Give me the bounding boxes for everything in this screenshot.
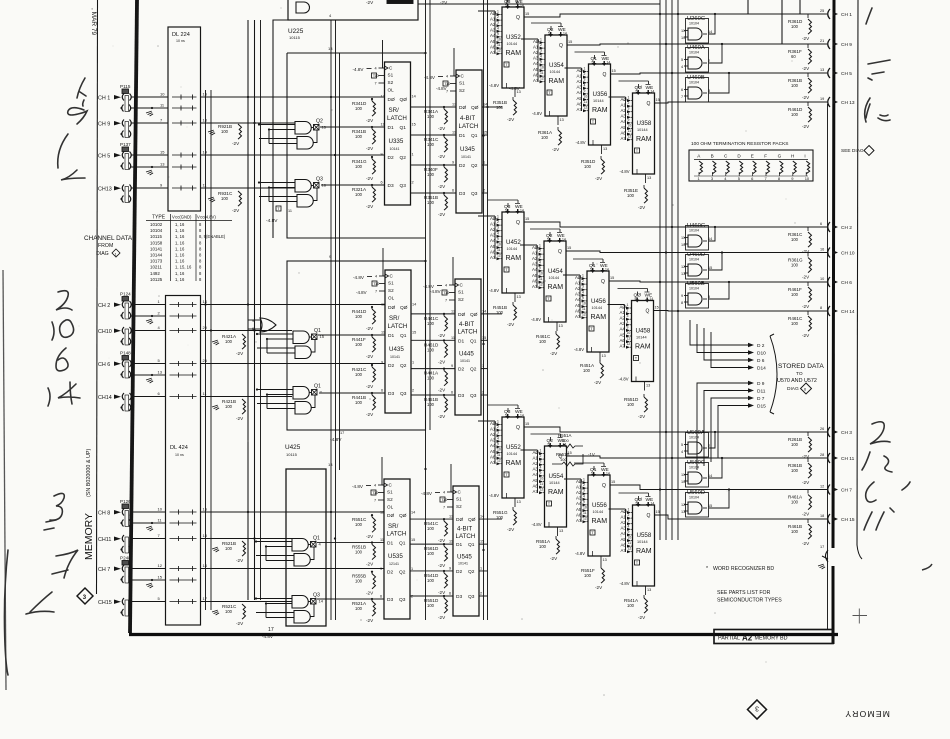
svg-text:D1: D1	[388, 125, 394, 131]
T pullup group1	[266, 206, 292, 224]
svg-text:U558: U558	[637, 532, 652, 539]
svg-text:1, 15, 16: 1, 15, 16	[175, 265, 192, 270]
svg-text:15: 15	[708, 266, 712, 270]
svg-text:MEMORY: MEMORY	[83, 513, 95, 560]
cut-off component top bar	[387, 0, 413, 4]
svg-text:9: 9	[497, 237, 499, 241]
4-bit latch U445	[423, 257, 486, 415]
svg-text:S1: S1	[387, 490, 393, 495]
svg-text:100: 100	[541, 135, 549, 140]
svg-text:-4.8V: -4.8V	[532, 111, 542, 116]
svg-text:P137: P137	[120, 142, 131, 147]
bus line C	[260, 20, 262, 600]
svg-text:RAM: RAM	[636, 548, 652, 555]
RAM U354	[521, 23, 572, 125]
svg-text:2: 2	[497, 15, 499, 19]
svg-text:3: 3	[539, 255, 541, 259]
svg-text:CH 6: CH 6	[841, 280, 852, 286]
svg-text:1: 1	[627, 303, 629, 307]
svg-text:12: 12	[681, 265, 685, 269]
svg-text:15: 15	[708, 504, 712, 508]
svg-text:H: H	[791, 154, 794, 159]
svg-text:5: 5	[505, 209, 507, 213]
svg-text:4: 4	[374, 484, 376, 488]
bus line I	[483, 0, 485, 620]
stored data bracket	[770, 334, 777, 414]
svg-text:5: 5	[592, 61, 594, 65]
svg-text:CH 3: CH 3	[841, 430, 852, 436]
bus line L	[665, 0, 667, 540]
svg-text:100: 100	[791, 468, 799, 473]
svg-text:100: 100	[427, 321, 435, 326]
svg-text:-4.8V: -4.8V	[353, 67, 365, 72]
RAM U458	[608, 289, 659, 391]
svg-text:CH 10: CH 10	[841, 251, 855, 257]
wires CH8 group to DL424	[130, 507, 166, 602]
svg-text:2: 2	[482, 391, 484, 395]
wires DL424 outputs group2	[201, 299, 386, 397]
svg-text:11: 11	[628, 541, 632, 545]
svg-text:12: 12	[583, 517, 587, 521]
svg-text:P124: P124	[120, 292, 131, 297]
svg-text:-2V: -2V	[438, 359, 446, 364]
svg-text:3: 3	[497, 226, 499, 230]
svg-text:-1V: -1V	[588, 452, 595, 457]
svg-text:RAM: RAM	[506, 50, 522, 57]
svg-text:Q3: Q3	[470, 393, 477, 399]
svg-text:9: 9	[627, 325, 629, 329]
resistors R551C R551B R555B R521A	[352, 514, 376, 623]
svg-text:Q: Q	[516, 425, 520, 431]
svg-text:-4.8V: -4.8V	[509, 86, 520, 91]
svg-text:-2V: -2V	[438, 126, 446, 131]
gate pair Q1 group2	[256, 328, 325, 359]
svg-text:D2: D2	[388, 155, 394, 161]
svg-text:11: 11	[381, 123, 385, 127]
bus line J	[487, 0, 489, 620]
wires CH1 group to DL224	[130, 92, 168, 189]
svg-text:-2V: -2V	[802, 66, 810, 71]
svg-text:12: 12	[582, 313, 586, 317]
svg-text:12: 12	[497, 49, 501, 53]
svg-text:Q1: Q1	[468, 542, 475, 548]
svg-text:-2V: -2V	[802, 480, 810, 485]
svg-text:-2V: -2V	[802, 333, 810, 338]
RAM U556	[564, 463, 615, 565]
svg-text:AØ: AØ	[621, 509, 628, 514]
delay line DL224	[168, 27, 201, 211]
svg-text:11: 11	[540, 482, 544, 486]
svg-text:Q2: Q2	[400, 155, 407, 161]
svg-text:D1: D1	[458, 338, 464, 344]
svg-text:15: 15	[568, 40, 572, 44]
svg-text:100: 100	[355, 192, 363, 197]
bus line N	[677, 0, 679, 540]
svg-text:11: 11	[381, 331, 385, 335]
svg-text:10144: 10144	[636, 336, 647, 340]
svg-text:1: 1	[497, 215, 499, 219]
svg-text:10: 10	[497, 38, 501, 42]
svg-text:-2V: -2V	[802, 304, 810, 309]
svg-text:Q1: Q1	[471, 133, 478, 139]
svg-text:-4.8V: -4.8V	[352, 484, 364, 489]
svg-text:14: 14	[708, 474, 712, 478]
wires CH2 group to DL424	[130, 299, 166, 397]
bus line M	[671, 0, 673, 540]
svg-text:Q2: Q2	[471, 163, 478, 169]
svg-text:LATCH: LATCH	[387, 115, 407, 122]
svg-text:10144: 10144	[507, 452, 518, 456]
svg-text:(SN B020000 & UP): (SN B020000 & UP)	[86, 449, 92, 497]
svg-text:10104: 10104	[689, 466, 699, 470]
svg-text:S1: S1	[459, 81, 465, 86]
left scan edge line	[3, 270, 6, 690]
connector CH14 input	[98, 393, 131, 411]
svg-text:15: 15	[412, 331, 416, 335]
svg-text:5: 5	[590, 268, 592, 272]
svg-text:AØ: AØ	[490, 11, 497, 16]
svg-text:U456: U456	[591, 298, 606, 305]
RAM U554	[521, 434, 572, 536]
svg-text:14: 14	[412, 303, 416, 307]
svg-text:D2: D2	[459, 163, 465, 169]
handwritten far-left stroke	[4, 550, 8, 675]
connector CH15 input	[98, 598, 131, 616]
svg-text:AØ: AØ	[490, 216, 497, 221]
svg-text:LATCH: LATCH	[387, 531, 407, 538]
svg-text:-2V: -2V	[366, 146, 374, 151]
svg-text:3: 3	[584, 78, 586, 82]
svg-text:10104: 10104	[689, 229, 699, 233]
svg-text:100: 100	[791, 529, 799, 534]
svg-text:DIAG: DIAG	[787, 386, 799, 392]
svg-text:7: 7	[374, 499, 376, 503]
svg-text:G: G	[778, 154, 782, 159]
RAM U558	[609, 493, 660, 595]
svg-text:B: B	[711, 154, 714, 159]
svg-text:1: 1	[497, 420, 499, 424]
wires DL224 outputs	[201, 92, 385, 189]
svg-text:15: 15	[525, 422, 529, 426]
handwritten 1 lower	[26, 592, 54, 614]
svg-text:D15: D15	[757, 404, 766, 410]
termination R361B output CH 11	[788, 453, 855, 485]
svg-text:100: 100	[791, 24, 799, 29]
svg-text:1, 16: 1, 16	[175, 222, 185, 227]
svg-text:P115: P115	[120, 84, 131, 89]
svg-text:CH 1: CH 1	[841, 12, 852, 18]
svg-text:D10: D10	[757, 351, 766, 357]
svg-text:TYPE: TYPE	[152, 215, 166, 221]
100 ohm termination resistor packs	[689, 141, 813, 181]
svg-text:P126: P126	[120, 499, 131, 504]
svg-text:15: 15	[656, 510, 660, 514]
svg-text:100: 100	[225, 339, 233, 344]
svg-text:S2: S2	[459, 88, 465, 93]
svg-text:-2V: -2V	[802, 275, 810, 280]
svg-text:10115: 10115	[150, 234, 162, 239]
svg-text:Q: Q	[516, 220, 520, 226]
registration cross	[853, 609, 868, 624]
svg-text:10104: 10104	[689, 81, 699, 85]
svg-text:13: 13	[158, 370, 163, 375]
svg-text:-4.8V: -4.8V	[436, 86, 447, 91]
svg-text:1, 16: 1, 16	[175, 277, 185, 282]
resistors R341D R341B R341G R321A	[352, 98, 376, 209]
wire RAM Q run 10	[567, 456, 828, 458]
svg-text:D 9: D 9	[757, 381, 765, 387]
svg-text:D2: D2	[456, 569, 462, 575]
termination R361D output CH 1	[788, 9, 852, 41]
svg-text:V cc(GND): V cc(GND)	[172, 215, 192, 220]
svg-text:9: 9	[497, 442, 499, 446]
svg-text:3: 3	[497, 431, 499, 435]
svg-text:-2V: -2V	[507, 117, 515, 122]
svg-text:2: 2	[480, 592, 482, 596]
handwritten right equals	[868, 60, 890, 80]
svg-text:U535: U535	[388, 553, 403, 560]
svg-text:2: 2	[627, 309, 629, 313]
svg-text:100: 100	[225, 609, 233, 614]
svg-text:4: 4	[375, 275, 377, 279]
svg-text:Q2: Q2	[470, 367, 477, 373]
NOR gate U560B	[681, 281, 710, 308]
resistor R421B	[212, 399, 246, 421]
svg-text:13: 13	[517, 295, 521, 299]
svg-text:-2V: -2V	[802, 541, 810, 546]
svg-text:Q: Q	[559, 43, 563, 49]
svg-text:10: 10	[628, 536, 632, 540]
svg-text:-4.8V: -4.8V	[489, 288, 499, 293]
svg-text:U345: U345	[460, 146, 475, 153]
svg-text:2: 2	[539, 249, 541, 253]
svg-text:100: 100	[427, 402, 435, 407]
svg-text:5: 5	[681, 58, 683, 62]
svg-text:D3: D3	[456, 594, 462, 600]
or-gate group2	[248, 318, 276, 332]
gate output links group3	[709, 432, 729, 508]
border connector pin 17	[818, 545, 828, 570]
connector P148	[98, 351, 131, 379]
svg-text:-4.8V: -4.8V	[353, 275, 365, 280]
RAM U456	[563, 259, 614, 361]
svg-text:D2: D2	[387, 570, 393, 576]
svg-text:-2V: -2V	[802, 95, 810, 100]
resistor R551A R551B pair	[552, 433, 595, 466]
svg-text:100: 100	[355, 606, 363, 611]
svg-text:2: 2	[497, 425, 499, 429]
termination R461B output CH 15	[788, 514, 855, 546]
svg-text:-4.8V: -4.8V	[575, 551, 585, 556]
svg-text:D14: D14	[757, 366, 766, 372]
svg-text:4: 4	[583, 494, 585, 498]
svg-text:13: 13	[559, 324, 563, 328]
svg-text:15: 15	[612, 69, 616, 73]
svg-text:1: 1	[497, 10, 499, 14]
svg-text:-2V: -2V	[236, 621, 244, 626]
svg-text:14: 14	[651, 90, 655, 94]
svg-text:10: 10	[584, 95, 588, 99]
connector CH11 input	[98, 535, 131, 553]
parts list note	[717, 590, 782, 604]
svg-text:16: 16	[820, 248, 824, 252]
resistor R551F	[581, 565, 605, 590]
resistor R451B	[493, 302, 517, 327]
svg-text:11: 11	[451, 336, 455, 340]
svg-text:100 OHM TERMINATION RESISTOR P: 100 OHM TERMINATION RESISTOR PACKS	[691, 141, 788, 147]
svg-text:10104: 10104	[150, 228, 163, 233]
resistors R441D R441F R421C R441B	[352, 306, 376, 417]
svg-text:D11: D11	[757, 389, 766, 395]
svg-text:7: 7	[375, 82, 377, 86]
svg-text:-2V: -2V	[366, 561, 374, 566]
resistor R551G	[493, 507, 517, 532]
svg-text:6: 6	[381, 181, 383, 185]
schematic heavy right border	[833, 0, 834, 644]
gate in top partial box	[296, 2, 310, 13]
svg-text:14: 14	[606, 472, 610, 476]
svg-text:MEMORY BD: MEMORY BD	[755, 636, 788, 642]
-4.8V label top	[436, 86, 520, 91]
svg-text:2: 2	[628, 101, 630, 105]
svg-text:9: 9	[540, 60, 542, 64]
svg-text:10: 10	[497, 448, 501, 452]
svg-text:-2V: -2V	[366, 326, 374, 331]
resistor R351B	[493, 97, 517, 122]
bus line A	[205, 90, 207, 610]
svg-text:12: 12	[627, 342, 631, 346]
svg-text:100: 100	[427, 142, 435, 147]
svg-text:1, 16: 1, 16	[175, 228, 185, 233]
svg-text:100: 100	[791, 292, 799, 297]
svg-text:AØ: AØ	[490, 421, 497, 426]
svg-text:10144: 10144	[507, 247, 518, 251]
svg-text:SEMICONDUCTOR TYPES: SEMICONDUCTOR TYPES	[717, 598, 782, 604]
svg-text:-2V: -2V	[802, 249, 810, 254]
svg-text:14: 14	[607, 61, 611, 65]
svg-text:100: 100	[355, 372, 363, 377]
svg-text:-4.8V: -4.8V	[424, 75, 436, 80]
termination R361C output CH 2	[788, 222, 852, 254]
RAM U552	[478, 405, 529, 507]
svg-text:9: 9	[539, 266, 541, 270]
handwritten mark L	[61, 170, 85, 180]
svg-text:-2V: -2V	[438, 388, 446, 393]
svg-text:3: 3	[540, 49, 542, 53]
svg-text:Q: Q	[601, 279, 605, 285]
handwritten right 14b	[864, 508, 894, 530]
svg-text:QØ: QØ	[400, 305, 408, 311]
svg-text:V cc(4.8V): V cc(4.8V)	[197, 215, 216, 220]
NOR gate U460B	[681, 75, 710, 102]
svg-text:CH 15: CH 15	[841, 517, 855, 523]
SR latch U335	[353, 40, 416, 205]
svg-text:7: 7	[681, 95, 683, 99]
svg-text:RAM: RAM	[506, 460, 522, 467]
svg-text:D2: D2	[458, 367, 464, 373]
svg-text:Q3: Q3	[468, 594, 475, 600]
svg-text:QØ: QØ	[470, 312, 478, 318]
svg-text:D 6: D 6	[757, 358, 765, 364]
svg-text:15: 15	[483, 131, 487, 135]
termination R361G output CH 10	[788, 248, 855, 280]
svg-text:14: 14	[520, 209, 524, 213]
svg-text:100: 100	[225, 546, 233, 551]
svg-text:13: 13	[602, 354, 606, 358]
svg-text:3: 3	[497, 21, 499, 25]
svg-text:CH 5: CH 5	[98, 154, 110, 160]
handwritten right slash mid	[866, 104, 888, 118]
svg-text:-2V: -2V	[594, 380, 602, 385]
svg-text:A2: A2	[742, 634, 753, 643]
resistor R551D	[624, 394, 648, 419]
svg-text:3: 3	[755, 705, 759, 712]
svg-text:7: 7	[375, 290, 377, 294]
svg-text:10: 10	[582, 302, 586, 306]
svg-text:11: 11	[681, 473, 685, 477]
svg-text:LATCH: LATCH	[388, 323, 408, 330]
svg-text:U225: U225	[288, 28, 304, 35]
svg-text:11: 11	[288, 209, 292, 213]
svg-text:18: 18	[820, 514, 824, 518]
svg-text:STORED DATA: STORED DATA	[778, 363, 824, 370]
svg-text:14: 14	[708, 30, 712, 34]
svg-text:Q3: Q3	[399, 597, 406, 603]
svg-text:5: 5	[708, 295, 710, 299]
svg-text:15: 15	[567, 246, 571, 250]
svg-text:100: 100	[355, 106, 363, 111]
svg-text:15: 15	[525, 217, 529, 221]
svg-text:-2V: -2V	[366, 384, 374, 389]
svg-text:10144: 10144	[637, 128, 648, 132]
svg-text:-2V: -2V	[236, 416, 244, 421]
resistors R341A R341C R340F R351B	[424, 106, 448, 217]
svg-text:9: 9	[628, 118, 630, 122]
svg-text:Q1: Q1	[400, 125, 407, 131]
svg-text:11: 11	[681, 236, 685, 240]
svg-text:-2V: -2V	[366, 618, 374, 623]
svg-text:100: 100	[539, 339, 547, 344]
svg-text:15: 15	[412, 123, 416, 127]
svg-text:P248: P248	[120, 556, 131, 561]
NOR gate U560C	[681, 460, 712, 487]
svg-text:-2V: -2V	[232, 208, 240, 213]
svg-text:11: 11	[584, 100, 588, 104]
svg-text:14: 14	[520, 414, 524, 418]
svg-text:Q: Q	[516, 15, 520, 21]
svg-text:OL: OL	[388, 88, 395, 93]
svg-text:4: 4	[582, 290, 584, 294]
svg-text:-4.8V: -4.8V	[266, 218, 278, 224]
svg-text:12: 12	[158, 563, 163, 568]
svg-text:RAM: RAM	[548, 489, 564, 496]
svg-text:10144: 10144	[150, 253, 163, 258]
svg-text:6: 6	[451, 391, 453, 395]
svg-text:12: 12	[451, 309, 455, 313]
svg-text:-2V: -2V	[638, 414, 646, 419]
svg-text:10: 10	[627, 331, 631, 335]
svg-text:3: 3	[582, 285, 584, 289]
svg-text:DØ: DØ	[388, 305, 395, 311]
svg-text:TO: TO	[796, 371, 803, 377]
svg-text:SEE DIAG: SEE DIAG	[841, 148, 864, 154]
svg-text:-2V: -2V	[438, 212, 446, 217]
svg-text:13: 13	[646, 384, 650, 388]
T pullup group2	[330, 431, 344, 443]
svg-text:Q: Q	[603, 72, 607, 78]
delay line DL424	[166, 296, 201, 626]
svg-text:9: 9	[451, 364, 453, 368]
